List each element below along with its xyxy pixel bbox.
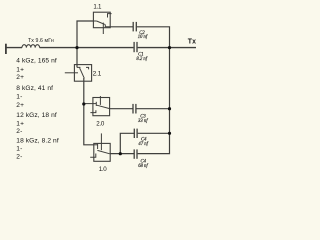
switch 1.1 lower contact xyxy=(105,24,110,26)
switch 1.1 input stub xyxy=(94,20,97,22)
switch 2.1 left contact xyxy=(77,67,80,69)
svg-text:1-: 1- xyxy=(16,94,22,101)
svg-text:1.1: 1.1 xyxy=(93,3,102,10)
svg-text:1.0: 1.0 xyxy=(99,166,108,173)
svg-text:Tx: Tx xyxy=(188,38,196,45)
junction node C xyxy=(82,102,85,105)
switch 1.1 upper contact xyxy=(108,14,112,18)
svg-text:12 kGz, 18 nf: 12 kGz, 18 nf xyxy=(16,112,57,119)
wire main middle xyxy=(40,47,134,49)
capacitor C2 plates xyxy=(132,22,134,32)
switch 2.0 upper contact xyxy=(95,102,97,106)
input terminal xyxy=(5,44,7,54)
wire branch down from node A xyxy=(76,48,78,68)
svg-text:8 kGz, 41 nf: 8 kGz, 41 nf xyxy=(16,85,53,92)
capacitor C1 plates xyxy=(133,42,135,52)
svg-text:2+: 2+ xyxy=(16,74,24,81)
wire main left xyxy=(6,47,22,49)
svg-text:2+: 2+ xyxy=(16,102,24,109)
wire C2 to rail corner xyxy=(137,27,170,48)
switch box 1.1 outline xyxy=(93,12,110,28)
wire C4a to rail xyxy=(138,132,170,134)
switch 1.1 pivot stem xyxy=(102,23,104,34)
inductor L1 Tx 9.6 mH xyxy=(22,45,40,48)
capacitor C3 plates xyxy=(132,104,134,114)
svg-text:1-: 1- xyxy=(16,146,22,153)
switch 1.0 arm xyxy=(97,150,109,153)
svg-text:1+: 1+ xyxy=(16,67,24,74)
capacitor C4b plates xyxy=(133,149,135,158)
junction node F (C4 branch) xyxy=(119,152,122,155)
junction node B xyxy=(168,46,171,49)
wire C3 to rail xyxy=(137,108,170,110)
svg-text:18 kGz, 8.2 nf: 18 kGz, 8.2 nf xyxy=(16,138,59,145)
switch 2.0 actuator stub xyxy=(99,96,101,105)
switch 1.0 actuator stub xyxy=(100,133,102,150)
junction node E (C4a rail) xyxy=(168,132,171,135)
wire branch up from node A xyxy=(77,21,94,48)
switch 1.1 arm xyxy=(97,21,105,24)
switch box 2.0 outline xyxy=(93,98,110,116)
wire node C down to box 1.0 xyxy=(84,104,94,145)
svg-text:2.0: 2.0 xyxy=(96,121,105,128)
capacitor C4a plates xyxy=(133,129,135,138)
switch 2.1 pivot stem down to node C xyxy=(83,78,85,104)
wire 1.1 output row xyxy=(110,26,133,28)
wire main right to Tx xyxy=(138,47,196,49)
svg-text:68 nf: 68 nf xyxy=(138,164,148,169)
wire C4a branch corner xyxy=(120,133,134,153)
switch box 2.1 outline xyxy=(74,65,91,82)
wire C4b to rail bottom corner xyxy=(138,48,170,154)
switch box 1.0 outline xyxy=(94,143,110,161)
switch 2.1 right contact xyxy=(86,67,89,69)
switch 1.0 lower-left contact xyxy=(90,154,96,158)
svg-text:2.1: 2.1 xyxy=(93,71,102,78)
svg-text:33 nf: 33 nf xyxy=(138,119,148,124)
svg-text:10 nf: 10 nf xyxy=(138,35,148,40)
wire C3 row xyxy=(110,108,133,110)
junction node D (C3 rail) xyxy=(168,107,171,110)
svg-text:4 kGz, 165 nf: 4 kGz, 165 nf xyxy=(16,58,57,65)
wire 1.0 output row (C4 68nf) xyxy=(110,153,134,155)
svg-text:8.2 nf: 8.2 nf xyxy=(136,57,147,62)
switch 2.1 arm xyxy=(80,69,84,78)
switch 2.1 output stub left xyxy=(65,72,78,74)
switch 1.0 input wire xyxy=(94,144,98,146)
switch 1.0 input contact xyxy=(97,144,99,149)
svg-text:2-: 2- xyxy=(16,128,22,135)
svg-text:1+: 1+ xyxy=(16,121,24,128)
switch 2.0 lower contact xyxy=(90,110,96,112)
svg-text:2-: 2- xyxy=(16,153,22,160)
switch 2.0 arm xyxy=(97,105,110,108)
svg-text:47 nf: 47 nf xyxy=(138,142,148,147)
junction node A xyxy=(75,46,78,49)
wire node C to box 2.0 xyxy=(84,103,97,105)
svg-text:Tx 9.6 мГн: Tx 9.6 мГн xyxy=(28,38,54,44)
